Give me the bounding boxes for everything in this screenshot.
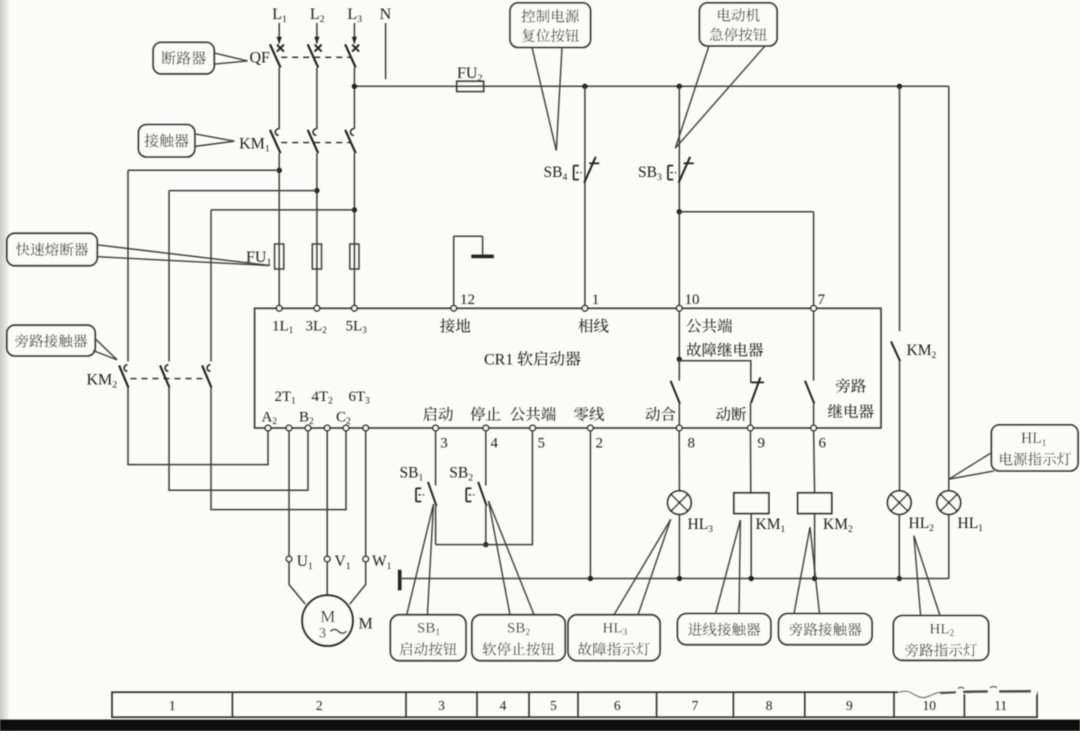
terminal 5 common [530,425,536,431]
svg-text:M: M [320,607,335,626]
terminal 9 NC contact [748,425,754,431]
svg-text:8: 8 [688,435,696,451]
wire coil KM1 to bus [750,514,752,579]
callout pointer to SB1 [407,504,434,615]
callout box: contactor (jie chu qi) [139,125,195,157]
svg-text:10: 10 [685,292,700,308]
terminal C2 [343,425,349,431]
callout box: control power reset button [510,3,590,48]
wire V1 to motor [326,562,328,595]
fuse FU1 phase 2 [312,244,321,269]
svg-text:5: 5 [550,698,557,713]
callout box: fast fuse (kuai su rong duan qi) [7,233,97,265]
terminal 7 [811,306,817,312]
callout box: SB1 start button [390,615,466,661]
terminal 12 ground [451,306,457,312]
ground symbol [454,236,494,305]
wire top bus to SB3 [678,86,680,305]
svg-text:QF: QF [250,50,271,67]
wire 6T3 to W1 [365,431,367,556]
wire top bus right corner to lamp HL1 [948,86,950,491]
callout pointer to FU1 [97,245,270,266]
svg-text:2: 2 [596,435,604,451]
callout pointer to SB4 [532,47,556,150]
wire terminal 6 to coil KM2 [814,431,815,493]
wire terminal 2 to bottom bus [589,431,591,579]
button SB2 (NO soft stop) [466,482,487,506]
wire SB2 to common loop [485,506,487,544]
lamp HL3 [668,491,692,515]
callout box: HL2 bypass indicator lamp [893,616,988,661]
svg-text:9: 9 [846,698,853,713]
wire internal common to NC contact [679,361,751,383]
svg-text:7: 7 [818,292,826,308]
junction SB3 branch on top bus [677,84,682,89]
callout box: HL1 power indicator lamp [991,425,1078,471]
junction KM1 coil on bus [749,576,754,581]
wire L1 drop with arrow [278,23,280,44]
wire tap L3 to bypass column 3 [211,209,354,211]
terminal W1 [363,556,369,562]
bypass contactor KM2 pole 2 [160,365,169,388]
svg-text:7: 7 [692,698,699,713]
wire lamp HL2 to bottom bus [898,514,900,578]
junction internal common [677,357,682,362]
junction L2 bypass tap [314,188,319,193]
svg-text:12: 12 [460,292,475,308]
svg-text:10: 10 [922,698,936,713]
wire SB1 to common loop [435,506,437,544]
svg-text:N: N [380,6,392,23]
wire top control bus from L3 [354,85,948,87]
wire L2 KM1 to starter terminal 3L2 [316,153,318,305]
svg-text:6: 6 [614,698,621,713]
wire common loop to terminal 5 [436,431,533,545]
bypass contactor KM2 pole 3 [202,365,211,388]
wire tap L2 to bypass column 2 [169,190,317,192]
callout pointer to QF [214,53,248,61]
breaker QF gang dashed link [281,56,351,58]
wire KM2 aux to lamp HL2 [899,361,901,491]
svg-text:6: 6 [819,435,827,451]
callout pointer to KM1 coil [716,520,741,614]
callout box: incoming line contactor [678,614,771,645]
soft starter CR1 box [255,308,881,428]
callout box: HL3 fault indicator lamp [568,615,660,661]
terminal V1 [324,556,330,562]
junction KM2 aux branch on top bus [897,84,902,89]
wire U1 to motor [289,562,305,604]
wire L1 KM1 to starter terminal 1L1 [278,153,280,305]
wire terminal 9 to coil KM1 [749,431,751,493]
contactor KM1 pole 1 [270,129,281,153]
wire L2 QF to KM1 [316,68,318,130]
contactor KM1 pole 3 [345,129,356,153]
svg-text:4: 4 [491,435,499,451]
coil KM1 [734,493,769,514]
callout box: breaker (duan lu qi) [153,42,214,73]
wire bypass pole3 to C2 [211,388,346,510]
contact KM2 aux (NO) [891,341,900,361]
bottom bus terminal bar [398,570,402,591]
lamp HL2 [888,491,912,515]
wire lamp HL1 to bottom bus [948,514,950,578]
wire tap L1 to bypass column 1 [128,169,279,171]
junction pin1 branch on top bus [582,84,587,89]
callout pointer to HL1 wire [949,453,992,480]
junction SB3-pin7 link [677,209,682,214]
svg-text:3: 3 [438,698,445,713]
internal NO contact (dong he) [671,359,680,425]
svg-text:9: 9 [758,435,766,451]
svg-text:11: 11 [994,698,1007,713]
svg-text:3: 3 [319,626,326,642]
svg-text:1: 1 [592,292,600,308]
svg-text:M: M [359,616,373,633]
terminal U1 [286,556,292,562]
svg-text:3: 3 [440,435,448,451]
terminal 1 phase line [582,306,588,312]
wire top bus to KM2 aux contact [899,86,901,331]
wire link to terminal 7 [679,211,813,213]
internal NC contact (dong duan) [751,377,765,425]
junction L3 top bus [352,84,357,89]
terminal 5L3 [352,306,358,312]
callout box: motor emergency stop button [700,3,778,46]
fuse FU1 phase 3 [350,244,359,269]
wire 4T2 to V1 [326,431,328,556]
svg-text:CR1: CR1 [484,352,513,369]
callout pointer to HL3 [614,519,671,614]
junction SB2 on loop [483,542,488,547]
callout pointer to SB3 [675,46,709,148]
bottom black bar [0,720,1080,731]
callout pointer to KM1 [194,134,234,141]
terminal 3 start [433,425,439,431]
fuse FU2 [457,81,484,91]
wire L3 QF to KM1 [353,68,355,130]
wire L1 QF to KM1 [278,68,280,130]
wire L2 drop with arrow [316,23,318,44]
terminal 2 neutral [588,425,594,431]
junction HL3 on bus [677,576,682,581]
wire terminal 3 to SB1 [435,431,437,486]
button SB4 (NC reset) [574,157,600,183]
terminal 4T2 [324,425,330,431]
wire N drop [385,23,387,79]
terminal 6 bypass relay [811,425,817,431]
terminal 1L1 [276,306,282,312]
fuse FU1 phase 1 [275,244,284,269]
terminal 8 NO contact [676,425,682,431]
wire terminal 10 internal drop [678,311,680,359]
breaker QF pole 2 [308,44,322,67]
callout pointer to KM2 coil [794,527,810,613]
wire lamp HL3 to bus [678,514,680,578]
callout box: bypass contactor (pang lu jie chu qi) [7,325,95,356]
wire coil KM2 to bus [814,514,816,579]
terminal 2T1 [286,425,292,431]
wire 2T1 to U1 [288,431,290,556]
motor M 3-phase [302,595,353,646]
terminal 4 stop [483,425,489,431]
wire L3 KM1 to starter terminal 5L3 [353,153,355,305]
contactor KM1 gang dashed link [281,142,351,144]
terminal 6T3 [363,425,369,431]
wire W1 to motor [350,562,366,604]
location ruler table [112,692,1037,717]
breaker QF pole 3 [345,44,359,67]
wire top bus to SB4 [584,86,586,305]
svg-text:2: 2 [316,698,323,713]
wire terminal 8 to lamp HL3 [678,431,680,491]
lamp HL1 [937,491,961,515]
wire bottom bus [400,578,949,580]
callout box: bypass contactor label [779,614,872,645]
svg-text:4: 4 [500,698,507,713]
callout pointer to HL2 [914,536,921,616]
svg-text:8: 8 [766,698,773,713]
terminal 10 common fault relay [677,306,683,312]
svg-text:1: 1 [169,698,176,713]
coil KM2 [798,493,832,514]
button SB1 (NO start) [416,482,437,506]
junction HL2 bottom bus [897,576,902,581]
callout box: SB2 soft stop button [472,615,565,661]
contactor KM1 pole 2 [308,129,319,153]
button SB3 (NC emergency stop) [668,157,694,183]
bypass contactor KM2 pole 1 [119,365,128,388]
wire bypass pole1 to A2 [128,388,268,465]
junction neutral on bus [588,576,593,581]
junction L1 bypass tap [277,168,282,173]
wire L3 drop with arrow [353,23,355,44]
svg-text:5: 5 [538,435,546,451]
callout pointer to KM2 [95,339,117,360]
bypass KM2 gang dashed link [131,378,208,380]
terminal 3L2 [314,306,320,312]
junction L3 bypass tap [352,207,357,212]
wire terminal 4 to SB2 [485,431,487,486]
wire bypass pole2 to B2 [169,388,308,491]
junction KM2 coil on bus [812,576,817,581]
terminal B2 [305,425,311,431]
breaker QF pole 1 [270,44,284,67]
callout pointer to SB2 [489,501,511,615]
terminal A2 [265,425,271,431]
watermark artifact above ruler [898,687,1037,698]
internal bypass relay NO contact [805,311,814,425]
